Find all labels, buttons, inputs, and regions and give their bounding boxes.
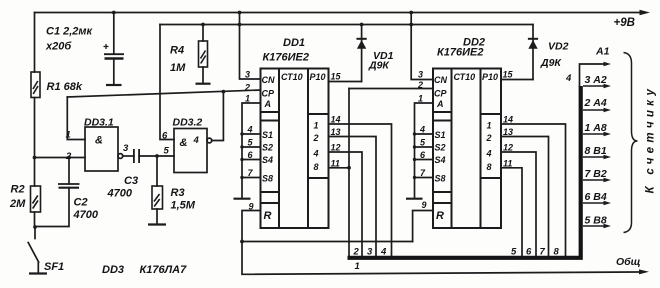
svg-text:К176ИЕ2: К176ИЕ2 [437,47,483,59]
wire DD2 pin 12 output [501,152,536,256]
svg-text:7: 7 [248,168,254,178]
svg-text:5: 5 [511,247,517,258]
svg-text:R: R [264,210,272,222]
svg-text:4700: 4700 [107,188,133,200]
svg-text:1 А8: 1 А8 [585,122,607,134]
svg-text:8 В1: 8 В1 [585,145,607,157]
svg-text:2: 2 [244,83,250,93]
svg-text:4: 4 [193,135,200,146]
svg-text:Д9К: Д9К [368,60,390,72]
svg-text:Общ: Общ [616,256,641,268]
svg-text:С3: С3 [124,175,138,187]
svg-text:R: R [436,210,444,222]
svg-text:К176ЛА7: К176ЛА7 [140,264,188,276]
gate DD3.2 [174,129,212,173]
svg-text:4: 4 [419,125,425,135]
svg-text:2: 2 [353,247,360,258]
capacitor C2 top lead [68,158,70,185]
wire DD1 pin 13 output [329,137,377,256]
svg-text:3: 3 [123,143,129,154]
capacitor C1 leads [113,13,115,55]
gate DD3.1 [85,127,123,171]
svg-text:R1 68k: R1 68k [47,81,83,93]
svg-text:СТ10: СТ10 [454,72,476,82]
svg-text:6: 6 [420,150,426,160]
svg-text:9: 9 [249,202,254,212]
wire left vertical rail to R1 [34,13,36,73]
svg-text:A: A [264,99,272,109]
wire DD3.1 pin 1 feedback [67,97,85,140]
ground bar under SF1 [29,272,47,274]
wire DD2 pin 14 output [501,124,566,256]
ground bar DD2 S common [406,198,423,200]
wire DD1 P10 pin 15 to VD1 [329,81,362,83]
wire C3 to DD3.2 pin 5 [139,155,174,157]
svg-text:А1: А1 [595,46,610,58]
wire DD1 S2 pin 5 stub [242,146,261,148]
svg-text:11: 11 [331,158,340,168]
svg-text:2: 2 [486,133,492,143]
switch SF1 leads and blade [34,227,36,239]
wire +9V secondary rail [160,24,533,26]
svg-text:3: 3 [367,247,373,258]
wire +9V top rail [35,12,640,14]
svg-text:8: 8 [314,162,319,172]
connector A1 pin arrows [583,84,611,228]
resistor R4 [199,41,208,67]
capacitor C2 [58,184,80,188]
resistor R2 [31,186,41,212]
svg-text:5 В8: 5 В8 [585,215,607,227]
diode VD1 [357,39,367,49]
svg-text:4: 4 [380,247,387,258]
svg-text:х20б: х20б [45,41,72,53]
diode VD2 lead [532,25,534,80]
svg-text:12: 12 [331,143,341,153]
svg-text:S2: S2 [435,143,446,153]
svg-text:5: 5 [420,138,426,148]
svg-text:4: 4 [247,125,253,135]
svg-text:S4: S4 [435,155,446,165]
ground bar under C1 [106,84,122,86]
ground bar DD1 S common [234,198,251,200]
diode VD2 [528,39,538,49]
wire DD1 R pin 9 [242,211,261,242]
wire DD1 S8 pin 7 stub [242,177,261,179]
op IC DD2 K176IE2 box [433,69,501,229]
svg-text:15: 15 [331,72,342,82]
arrow Obshch line head [639,269,649,274]
svg-text:С1 2,2мк: С1 2,2мк [46,26,94,38]
svg-text:13: 13 [503,127,513,137]
wire DD2 A pin 1 and S-common vertical [415,103,434,198]
svg-text:К176ИЕ2: К176ИЕ2 [263,52,309,64]
svg-text:6 В4: 6 В4 [585,191,607,203]
svg-text:DD3: DD3 [102,264,124,276]
wire R1 bottom to R2 top [34,98,36,187]
wire DD3.2 pin 4 output to clock net [212,91,224,140]
capacitor C3 [134,149,139,163]
svg-text:2: 2 [65,151,72,162]
wire rail drop to DD1 CN pin 3 [240,13,261,80]
capacitor C1 [104,44,125,59]
diode VD1 lead [361,25,363,82]
wire DD1 pin 11 output [329,167,350,169]
svg-text:VD2: VD2 [548,41,569,53]
svg-text:S8: S8 [262,174,273,184]
svg-text:8: 8 [554,247,560,258]
svg-text:14: 14 [331,115,341,125]
resistor R3 top lead [156,156,158,186]
svg-text:7: 7 [420,168,426,178]
svg-text:СТ10: СТ10 [281,72,303,82]
wire rail drop to DD2 CN pin 3 [411,13,433,80]
svg-text:1: 1 [355,261,360,272]
svg-text:Д9К: Д9К [540,57,562,69]
svg-text:2М: 2М [9,198,26,210]
svg-text:2: 2 [313,133,319,143]
svg-text:5: 5 [164,146,170,157]
svg-text:К счетчику: К счетчику [645,85,657,194]
svg-text:15: 15 [503,70,514,80]
wire DD2 S2 pin 5 stub [415,146,434,148]
svg-text:S1: S1 [262,130,273,140]
arrow +9V rail head [640,10,651,16]
svg-text:2 А4: 2 А4 [584,97,607,109]
svg-text:S2: S2 [262,143,273,153]
wire DD2 R pin 9 [413,211,433,242]
svg-text:1: 1 [66,130,71,141]
svg-text:13: 13 [331,127,341,137]
svg-text:1,5М: 1,5М [171,200,196,212]
brace bracket [624,53,638,233]
svg-text:CP: CP [262,89,275,99]
svg-text:2: 2 [417,80,423,90]
resistor R4 leads [202,25,204,42]
svg-text:С2: С2 [74,197,88,209]
wire DD3.2 pin 6 vertical [160,25,174,140]
svg-text:DD3.1: DD3.1 [84,117,114,129]
connector A1 top pin arrow [604,62,612,66]
svg-text:CN: CN [262,75,275,85]
svg-text:1: 1 [245,94,250,104]
svg-text:7 В2: 7 В2 [585,168,607,180]
svg-text:3: 3 [245,70,250,80]
wire DD1 pin 12 output [329,152,363,256]
resistor R3 bottom lead [156,209,158,224]
svg-text:9: 9 [422,200,427,210]
svg-text:7: 7 [540,247,546,258]
svg-text:6: 6 [248,150,254,160]
wire DD2 S1 pin 4 stub [415,133,434,135]
svg-text:1: 1 [418,94,423,104]
svg-text:CP: CP [434,89,447,99]
wire DD2 CP pin 2 [349,88,433,90]
svg-text:11: 11 [503,158,512,168]
wire DD2 pin 13 output [501,137,549,256]
wire DD2 pin 11 output [501,168,522,256]
resistor R1 [31,72,40,98]
wire DD1 S1 pin 4 stub [242,133,261,135]
wire connector top pin line [580,64,605,86]
wire DD1 A pin 1 and S-common vertical [242,103,261,198]
op IC DD1 K176IE2 box [261,69,329,229]
svg-text:1М: 1М [170,62,186,74]
wire DD1 S4 pin 6 stub [242,159,261,161]
svg-text:DD3.2: DD3.2 [173,117,203,129]
resistor R3 [152,186,163,209]
svg-text:4: 4 [313,149,319,159]
wire common line to Obshch [242,242,640,275]
svg-text:&: & [180,137,188,149]
wire clock net DD3.2 out to DD1 CP [67,90,260,97]
svg-text:4: 4 [565,73,572,84]
svg-text:+9В: +9В [614,17,635,29]
svg-text:1: 1 [487,121,492,131]
svg-text:R4: R4 [170,45,184,57]
svg-text:A: A [436,99,444,109]
svg-text:S1: S1 [435,130,446,140]
wire DD1 pin 14 output [329,124,392,256]
svg-text:4: 4 [486,149,492,159]
svg-text:SF1: SF1 [44,261,64,273]
svg-text:12: 12 [503,143,513,153]
wire DD3.1 output to C3 [123,155,134,157]
wire DD2 P10 pin 15 to VD2 [501,79,533,81]
wire reset net R line [242,241,413,243]
svg-text:8: 8 [487,162,492,172]
ground bar under R4 [196,83,211,85]
svg-text:14: 14 [503,115,513,125]
svg-text:1: 1 [314,121,319,131]
bus cable thick line to connector [348,86,581,258]
wire Q8 vertical to bus and DD2 clock [348,89,350,256]
svg-text:5: 5 [248,138,254,148]
ground bar under R3 [148,223,166,225]
svg-text:CN: CN [434,75,447,85]
svg-text:S4: S4 [262,155,273,165]
resistor R2 bottom lead [34,212,36,227]
svg-text:6: 6 [162,131,168,142]
svg-text:DD1: DD1 [283,37,305,49]
svg-text:3: 3 [418,70,423,80]
svg-text:R2: R2 [11,184,25,196]
wire DD2 S8 pin 7 stub [415,177,434,179]
svg-text:&: & [95,135,103,147]
svg-text:Р10: Р10 [482,72,498,82]
svg-text:6: 6 [526,247,532,258]
svg-text:S8: S8 [435,174,446,184]
svg-text:Р10: Р10 [310,72,326,82]
capacitor C2 bottom lead [36,188,70,227]
svg-text:R3: R3 [171,187,185,199]
wire DD3.1 pin 2 input [35,157,86,159]
wire DD2 S4 pin 6 stub [415,159,434,161]
svg-text:3 А2: 3 А2 [585,74,607,86]
svg-text:4700: 4700 [73,209,99,221]
